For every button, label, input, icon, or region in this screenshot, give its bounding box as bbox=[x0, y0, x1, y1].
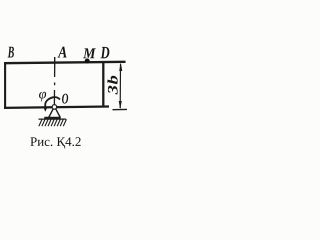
label D bbox=[101, 47, 110, 58]
pivot pin circle O bbox=[52, 105, 57, 110]
dimension arrowhead bottom bbox=[119, 101, 122, 109]
support triangle left leg bbox=[49, 109, 54, 118]
angle arc phi bbox=[45, 97, 60, 107]
caption bbox=[30, 137, 80, 148]
plate left edge bbox=[4, 62, 6, 108]
ground line bbox=[39, 118, 67, 120]
label B bbox=[8, 47, 14, 58]
dash-dot axis through A and O bbox=[54, 66, 56, 77]
arc arrowhead bbox=[44, 108, 48, 112]
point M dot on top edge bbox=[85, 59, 90, 64]
ground hatching bbox=[39, 119, 67, 126]
dimension line 3b bbox=[119, 64, 121, 108]
label phi bbox=[39, 92, 46, 102]
dimension label 3b bbox=[107, 76, 117, 95]
plate right edge bbox=[102, 62, 104, 107]
support triangle base bbox=[44, 117, 60, 119]
dimension extension line bottom right bbox=[113, 108, 128, 110]
plate bottom edge bbox=[4, 107, 109, 108]
plate top edge (extends right as dimension extension line) bbox=[4, 62, 126, 63]
label A bbox=[58, 47, 67, 58]
support triangle right leg bbox=[56, 109, 61, 118]
dimension arrowhead top bbox=[119, 62, 122, 71]
label O bbox=[62, 94, 68, 104]
tick at A crossing top edge bbox=[54, 57, 56, 66]
label M bbox=[83, 48, 96, 58]
